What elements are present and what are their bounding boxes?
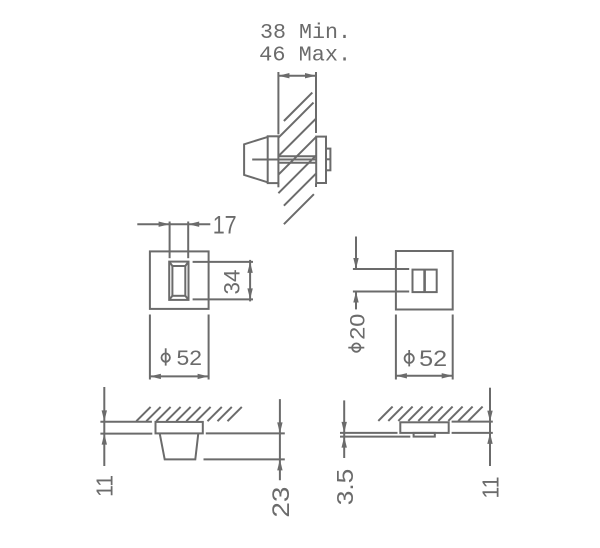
hatching bottom-left view xyxy=(136,407,150,421)
dim phi52 left extension lines xyxy=(149,315,151,380)
dim phi52 right extension lines xyxy=(395,315,397,380)
door surface bottom-left view xyxy=(100,421,151,423)
svg-text:11: 11 xyxy=(91,475,117,497)
release boss side xyxy=(326,149,330,171)
svg-text:11: 11 xyxy=(478,477,504,499)
spindle axis xyxy=(252,159,316,161)
outside rosette square front xyxy=(150,251,209,309)
plate bottom extension right xyxy=(452,432,493,434)
door panel left edge xyxy=(277,72,279,134)
inside rosette side xyxy=(316,137,326,183)
knob bottom extension xyxy=(204,458,285,460)
dim 11 left line xyxy=(103,387,105,466)
plate bottom extension left xyxy=(340,432,398,434)
door panel right edge xyxy=(315,72,317,133)
svg-text:38 Min.: 38 Min. xyxy=(260,21,351,45)
door surface bottom-right view xyxy=(452,421,493,423)
dim 17 extension lines xyxy=(169,222,171,259)
dim 23 line xyxy=(279,399,281,480)
phi symbol left xyxy=(162,353,170,361)
release slot bar xyxy=(423,270,426,293)
thumbturn hole outer xyxy=(169,262,188,300)
dim phi20 line upper xyxy=(355,237,357,270)
hatching bottom-right view xyxy=(378,407,392,421)
dim phi52 left line xyxy=(150,375,209,377)
svg-text:20: 20 xyxy=(346,314,369,340)
svg-text:3.5: 3.5 xyxy=(332,469,358,506)
rosette bottom extension left xyxy=(100,433,152,435)
svg-text:52: 52 xyxy=(177,347,203,370)
svg-text:52: 52 xyxy=(419,346,447,371)
dimension line 38-46 xyxy=(278,75,316,77)
phi symbol 20 rotated xyxy=(352,343,360,351)
dim 11 right line xyxy=(489,388,491,466)
thumbturn hole inner xyxy=(172,266,185,296)
release slot outer xyxy=(413,270,437,293)
inside rosette square front xyxy=(396,251,453,310)
boss section bottom-right xyxy=(414,433,435,437)
outside rosette side xyxy=(268,136,279,183)
plate section bottom-right xyxy=(400,422,448,433)
hole bevels xyxy=(169,262,172,266)
dim 3.5 line xyxy=(343,400,345,458)
spindle bar xyxy=(278,155,316,157)
svg-text:23: 23 xyxy=(268,487,295,518)
rosette bottom extension right xyxy=(206,432,285,434)
dim phi20 line lower xyxy=(355,292,357,310)
phi symbol right xyxy=(405,354,414,363)
dim 17 line xyxy=(137,223,210,225)
boss bottom extension left xyxy=(340,436,410,438)
rosette section bottom-left xyxy=(156,422,203,434)
svg-text:17: 17 xyxy=(213,212,237,240)
svg-text:46 Max.: 46 Max. xyxy=(259,44,351,68)
svg-text:34: 34 xyxy=(220,270,245,295)
dim phi20 extension lines xyxy=(353,268,409,270)
dim 34 extension lines xyxy=(193,261,253,263)
knob section pot xyxy=(160,433,199,459)
dim phi52 right line xyxy=(396,375,453,377)
door hatching top view xyxy=(284,93,312,121)
thumbturn knob side xyxy=(244,137,268,182)
dim 34 line xyxy=(249,260,251,302)
